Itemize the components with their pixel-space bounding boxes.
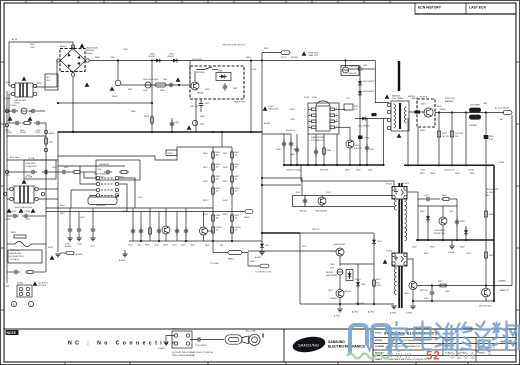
- svg-text:R642: R642: [290, 109, 295, 111]
- warning triangle transformer: [385, 94, 390, 98]
- svg-text:R618: R618: [250, 261, 255, 263]
- svg-text:90-264V: 90-264V: [39, 285, 47, 287]
- capacitor C630: [283, 134, 285, 165]
- junction y240: [417, 239, 419, 241]
- svg-text:IC601: IC601: [269, 106, 275, 108]
- svg-text:CN601: CN601: [172, 329, 180, 331]
- capacitor row y264: [12, 270, 20, 274]
- svg-text:B+ 125V 300mA: B+ 125V 300mA: [495, 107, 510, 110]
- snubber dashed box: [417, 99, 435, 127]
- relay transistor Q601: [191, 82, 199, 90]
- junction dots gbus: [283, 164, 285, 166]
- svg-text:CX601: CX601: [10, 105, 17, 107]
- thick wire x496 down: [493, 165, 495, 301]
- resistor R640: [323, 134, 325, 165]
- warning triangle row2: [8, 116, 13, 120]
- svg-text:D607 1N4937: D607 1N4937: [363, 81, 375, 83]
- svg-text:1M: 1M: [216, 230, 219, 232]
- capacitor C622: [158, 226, 160, 241]
- svg-text:5VDC: 5VDC: [205, 89, 211, 91]
- capacitor CX601 row: [10, 109, 18, 113]
- wire row y136: [7, 135, 46, 137]
- resistor in relay box: [119, 171, 129, 174]
- capacitor C603 column x172: [171, 118, 173, 132]
- svg-text:6: 6: [336, 120, 337, 122]
- box NTC: [45, 74, 58, 90]
- svg-text:220uF: 220uF: [430, 173, 436, 175]
- svg-text:R672 1K: R672 1K: [312, 229, 320, 231]
- capacitor C633: [366, 119, 368, 166]
- svg-text:KA5Q1265: KA5Q1265: [269, 108, 280, 111]
- svg-text:C613: C613: [80, 217, 85, 219]
- svg-text:P602 DEGAUSS: P602 DEGAUSS: [94, 173, 110, 176]
- svg-text:UF4007: UF4007: [167, 56, 175, 58]
- junction y285.5: [431, 284, 433, 286]
- diode D620 block: [409, 111, 425, 113]
- wire left rail down: [8, 94, 10, 123]
- svg-text:2: 2: [309, 114, 310, 116]
- svg-text:ERROR AMP: ERROR AMP: [326, 274, 338, 277]
- warning triangle under transformer: [397, 133, 402, 137]
- wire winding rail y195.5: [293, 195, 393, 197]
- svg-text:C622: C622: [154, 245, 159, 247]
- svg-text:1M: 1M: [216, 179, 219, 181]
- svg-text:R606: R606: [131, 111, 136, 113]
- wire x383.5: [383, 119, 385, 166]
- resistor R626: [231, 162, 234, 172]
- svg-text:R641: R641: [354, 106, 359, 108]
- wire x408 winding return: [407, 118, 409, 165]
- junction y304: [339, 303, 341, 305]
- svg-text:C611: C611: [205, 103, 209, 105]
- char jia: [387, 322, 407, 351]
- svg-text:R630: R630: [145, 245, 150, 247]
- svg-text:A-GND: A-GND: [368, 311, 375, 314]
- svg-text:LED601: LED601: [344, 291, 351, 293]
- ground degauss 2: [78, 234, 80, 238]
- svg-text:SAMSUNG: SAMSUNG: [298, 342, 319, 347]
- char wei: [436, 324, 454, 350]
- junction secondary rail: [438, 111, 440, 113]
- AC cord plug: [225, 330, 263, 346]
- svg-text:C654: C654: [326, 192, 331, 194]
- svg-text:R603: R603: [30, 44, 35, 46]
- capacitor C620: [132, 226, 134, 241]
- svg-text:CY602: CY602: [34, 132, 41, 134]
- capacitor C616: [78, 212, 80, 228]
- svg-text:A-GND: A-GND: [334, 315, 341, 318]
- resistor R657: [485, 252, 488, 258]
- svg-text:0.22: 0.22: [354, 109, 358, 111]
- svg-text:0.9mH: 0.9mH: [5, 98, 11, 100]
- svg-text:A-GND: A-GND: [76, 253, 83, 256]
- wire y251 row: [248, 250, 336, 252]
- wire x262 y233 thick: [262, 232, 300, 234]
- svg-text:LF601: LF601: [5, 82, 10, 84]
- svg-text:1M: 1M: [235, 191, 238, 193]
- ground x125: [122, 254, 127, 257]
- wire varistor branch: [45, 123, 47, 160]
- capacitor C631: [290, 134, 292, 165]
- svg-text:KA5Q1265RF: KA5Q1265RF: [311, 136, 325, 139]
- junction dots bus: [72, 131, 74, 133]
- node snubber tap: [117, 59, 119, 61]
- thick bus y240: [416, 239, 494, 241]
- diode D610 line y118.5: [355, 118, 388, 120]
- box right relay drive: [96, 160, 140, 180]
- wire left col to bottom: [6, 216, 8, 283]
- svg-text:R621: R621: [203, 167, 208, 169]
- char liao: [493, 322, 510, 350]
- extra reference labels: [5, 48, 503, 305]
- svg-text:0101: 0101: [450, 351, 477, 361]
- wire harness step: [155, 147, 213, 160]
- wire degauss pin4 loop: [90, 195, 96, 197]
- char zi: [476, 322, 490, 352]
- char dian: [415, 322, 432, 350]
- svg-text:S-GND: S-GND: [406, 313, 413, 315]
- T602 left winding lower: [394, 255, 396, 295]
- svg-text:SRUDH-S: SRUDH-S: [196, 72, 205, 74]
- svg-text:D634: D634: [377, 241, 382, 243]
- svg-text:C633: C633: [368, 170, 373, 172]
- svg-text:Q609 KSC945: Q609 KSC945: [479, 306, 491, 308]
- diode D608: [358, 89, 362, 97]
- transformer T601: [387, 96, 409, 132]
- wire degauss pin2 left: [80, 166, 96, 184]
- svg-text:682: 682: [220, 245, 223, 247]
- svg-text:JP601: JP601: [167, 153, 174, 155]
- zone tick marks left edge: [1, 62, 5, 310]
- wire LF602 left: [7, 188, 10, 190]
- svg-text:Q605: Q605: [421, 104, 426, 106]
- svg-text:C605 100uF 400V: C605 100uF 400V: [143, 79, 159, 81]
- svg-text:1M: 1M: [235, 167, 238, 169]
- resistor R624: [212, 213, 215, 223]
- capacitor C623: [176, 226, 178, 241]
- wire filter left to AC rail: [9, 85, 11, 87]
- resistor R629: [231, 213, 234, 223]
- svg-text:D633 4148: D633 4148: [355, 303, 364, 305]
- bridge terminal top: [71, 45, 74, 48]
- wire verticals to harness: [132, 208, 134, 226]
- svg-text:8: 8: [336, 108, 337, 110]
- BOTTOM BAND: [4, 329, 516, 363]
- wire x418: [417, 192, 419, 240]
- wire rail y134: [262, 133, 291, 135]
- svg-text:1/2W: 1/2W: [252, 69, 257, 71]
- svg-text:R663: R663: [460, 221, 465, 223]
- WATERMARK: [347, 322, 519, 363]
- fuse FB601: [228, 251, 242, 255]
- svg-text:C614: C614: [122, 211, 127, 213]
- svg-text:L602 BEAD: L602 BEAD: [470, 104, 481, 107]
- ground heater: [163, 342, 168, 345]
- AC inlet connector J601: [11, 282, 33, 307]
- zone tick marks top edge: [26, 1, 390, 4]
- KA431 IC602: [439, 217, 447, 225]
- feedback divider x486: [485, 113, 487, 289]
- svg-text:A-GND: A-GND: [119, 259, 126, 262]
- svg-text:R670: R670: [376, 279, 381, 281]
- svg-text:NOTE: AC INPUT RANGE IS 90V TO: NOTE: AC INPUT RANGE IS 90V TO 264V A: [172, 351, 213, 354]
- samsung logo ellipse: [292, 335, 327, 355]
- svg-text:D606: D606: [218, 71, 223, 73]
- wire cap link y69: [362, 68, 375, 70]
- ground S-GND core bottom: [391, 306, 396, 309]
- svg-text:1/2W: 1/2W: [110, 57, 115, 59]
- wire degauss pin1 left: [84, 172, 96, 178]
- svg-text:ADJ: ADJ: [486, 194, 490, 197]
- ground A-GND left: [55, 254, 60, 257]
- wire bridge left down: [35, 61, 57, 88]
- svg-text:R652: R652: [470, 173, 475, 175]
- zone tick marks right edge: [516, 62, 520, 310]
- fuse box labels: [24, 160, 56, 179]
- svg-text:R656: R656: [489, 214, 494, 216]
- resistor R627: [231, 174, 234, 184]
- svg-text:C633: C633: [369, 149, 374, 151]
- wire winding rail y206.5: [293, 206, 395, 208]
- svg-text:R644 0.22: R644 0.22: [286, 130, 295, 132]
- svg-text:GBU4J 600V: GBU4J 600V: [86, 48, 98, 50]
- resistor R671: [438, 284, 448, 287]
- svg-text:52: 52: [426, 351, 441, 363]
- wire x262 main vertical: [261, 53, 263, 233]
- svg-text:C656: C656: [466, 253, 471, 255]
- svg-text:D612: D612: [265, 245, 270, 247]
- warning triangle relay: [176, 77, 181, 81]
- svg-text:SAMSUNG: SAMSUNG: [328, 340, 345, 344]
- svg-text:R614: R614: [60, 205, 65, 207]
- ground degauss 3: [92, 234, 94, 238]
- junction dots y165.3: [438, 164, 440, 166]
- line filter LF601: [11, 83, 36, 105]
- svg-text:D633: D633: [361, 284, 366, 286]
- capacitor C634: [296, 134, 298, 165]
- zone tick marks bottom edge: [65, 362, 468, 365]
- wire x152 column: [151, 61, 153, 133]
- svg-text:R655: R655: [489, 136, 494, 138]
- wire pin stubs left: [308, 108, 312, 110]
- capacitor C608 x360: [358, 65, 362, 73]
- svg-text:R625: R625: [223, 153, 228, 155]
- svg-text:SHEET: SHEET: [375, 359, 383, 361]
- svg-text:PC601: PC601: [386, 184, 393, 186]
- svg-text:R609: R609: [128, 89, 133, 91]
- svg-text:R601: R601: [5, 130, 10, 132]
- box left edge x300: [299, 233, 301, 304]
- warning triangle x52: [50, 255, 55, 259]
- watermark book logo: [350, 325, 390, 353]
- svg-text:2200P: 2200P: [36, 83, 42, 85]
- svg-text:C613: C613: [138, 197, 143, 199]
- wire harness y208: [46, 207, 213, 209]
- svg-text:C660: C660: [330, 264, 335, 266]
- wire drain drop x375.3: [375, 61, 389, 103]
- svg-text:D640: D640: [437, 106, 442, 108]
- svg-text:R602: R602: [20, 130, 25, 132]
- svg-text:SCHEME: SCHEME: [375, 346, 385, 348]
- svg-text:R616: R616: [60, 213, 65, 215]
- arrow terminal: [260, 264, 269, 268]
- svg-text:R622: R622: [203, 181, 208, 183]
- transistor Q610: [318, 197, 326, 205]
- svg-text:C618: C618: [52, 167, 57, 169]
- wire ladder rail left: [212, 147, 214, 241]
- svg-text:L603: L603: [163, 79, 167, 81]
- svg-text:R640: R640: [327, 150, 332, 152]
- svg-text:Q602: Q602: [190, 245, 195, 247]
- warning triangle bridge: [80, 43, 85, 47]
- svg-text:MODEL: MODEL: [375, 340, 383, 342]
- svg-text:RELAY: RELAY: [197, 92, 204, 95]
- svg-text:Q608: Q608: [404, 293, 409, 295]
- svg-text:7: 7: [336, 114, 337, 116]
- label cluster additions: [52, 57, 509, 300]
- svg-text:1M: 1M: [216, 155, 219, 157]
- svg-text:EER3543: EER3543: [392, 96, 400, 98]
- svg-text:T3.15A UL: T3.15A UL: [10, 258, 20, 261]
- svg-text:Q607: Q607: [328, 290, 333, 292]
- svg-text:T3.15A: T3.15A: [28, 157, 35, 160]
- diode D631: [427, 206, 429, 240]
- capacitor C653: [456, 199, 458, 240]
- svg-text:1M: 1M: [235, 179, 238, 181]
- junction bus 237: [140, 240, 142, 242]
- wire x292.5: [292, 196, 294, 207]
- resistor R620: [212, 150, 215, 160]
- varistor VA601: [44, 130, 47, 133]
- warning triangle fuse: [302, 51, 307, 55]
- wire y272: [7, 271, 12, 273]
- wire y181 aux: [301, 165, 394, 186]
- wire x308: [307, 134, 309, 165]
- relay coil diode D606 box: [216, 73, 231, 81]
- svg-text:SHUNT REG: SHUNT REG: [434, 233, 446, 235]
- resistor R628: [231, 186, 234, 196]
- wire pc601 right: [407, 191, 418, 193]
- wire bottom bus y237: [129, 240, 262, 242]
- svg-text:C620: C620: [128, 245, 133, 247]
- ground S-GND bottom: [412, 301, 414, 305]
- wire degauss pin2 right: [119, 184, 127, 212]
- svg-text:R671 1K: R671 1K: [420, 290, 428, 292]
- diode D607: [358, 79, 362, 87]
- svg-text:R671: R671: [438, 281, 443, 283]
- ground A-GND y308: [339, 304, 341, 308]
- capacitor row y172: [29, 170, 37, 174]
- svg-text:DIODE: DIODE: [86, 53, 93, 55]
- svg-text:5: 5: [336, 126, 337, 128]
- wire secondary rail y112.5: [435, 112, 504, 114]
- wire y178: [262, 178, 302, 196]
- op-amp IC601 body: [311, 101, 335, 142]
- char xiu: [456, 323, 472, 350]
- capacitor in relay box: [104, 170, 112, 174]
- svg-text:C652: C652: [449, 211, 454, 213]
- svg-text:1/2W: 1/2W: [36, 130, 41, 132]
- photo coupler PC602: [386, 251, 407, 267]
- svg-text:1M: 1M: [235, 230, 238, 232]
- svg-text:R657: R657: [489, 255, 494, 257]
- wire degauss pin1 right: [119, 178, 135, 208]
- svg-text:AC CORD: AC CORD: [246, 330, 257, 333]
- svg-text:Q604: Q604: [354, 145, 359, 147]
- svg-text:JP602: JP602: [364, 138, 369, 140]
- svg-text:DEGAUSS: DEGAUSS: [96, 204, 106, 207]
- svg-text:R651: R651: [420, 173, 425, 175]
- wire left col down: [6, 91, 8, 172]
- capacitor heater: [190, 339, 196, 341]
- wire degauss pin4 right loop: [117, 195, 119, 197]
- column x374: [373, 233, 375, 304]
- wire to ac cord: [203, 339, 224, 341]
- wire thermistor row: [7, 243, 15, 245]
- svg-text:ZD601: ZD601: [355, 279, 361, 281]
- svg-text:R628: R628: [223, 200, 228, 202]
- transformer T602 core: [398, 183, 400, 308]
- transistor Q609: [482, 288, 491, 297]
- warning triangles y212: [7, 208, 12, 212]
- svg-text:C630: C630: [276, 149, 281, 151]
- svg-text:D630 1N4148: D630 1N4148: [315, 211, 327, 213]
- capacitor row y216: [11, 214, 19, 218]
- svg-text:1/2W: 1/2W: [30, 47, 35, 49]
- wire ladder rail right: [231, 147, 233, 241]
- T602 right winding: [405, 188, 407, 241]
- svg-text:EE2828: EE2828: [408, 96, 415, 98]
- svg-text:CX602: CX602: [5, 219, 11, 221]
- svg-text:A-GND: A-GND: [255, 256, 262, 259]
- svg-text:1M: 1M: [216, 167, 219, 169]
- svg-text:C644: C644: [420, 170, 425, 172]
- wire bridge bottom down: [72, 76, 74, 132]
- svg-text:FB601: FB601: [228, 259, 235, 261]
- svg-text:C636: C636: [290, 119, 295, 121]
- resistor R625: [231, 150, 234, 160]
- wire LF602 right: [38, 188, 58, 190]
- svg-text:D609: D609: [356, 170, 361, 172]
- svg-text:WAKE UP: WAKE UP: [500, 289, 509, 292]
- svg-text:TH601: TH601: [10, 232, 17, 234]
- wire snubber tap down: [117, 61, 119, 81]
- diode D612: [261, 233, 263, 242]
- wire left col lower: [6, 172, 8, 216]
- svg-text:D608 1N4937: D608 1N4937: [363, 91, 375, 93]
- secondary ground bus y165.3: [404, 164, 494, 166]
- svg-text:FREQ 50/60Hz NOMINAL: FREQ 50/60Hz NOMINAL: [172, 354, 196, 357]
- svg-text:A-GND: A-GND: [352, 311, 359, 314]
- resistor R649: [438, 113, 440, 166]
- resistor R660: [441, 198, 451, 201]
- svg-text:TITLE: TITLE: [375, 333, 382, 335]
- svg-text:COIL: COIL: [97, 169, 101, 171]
- svg-text:T3.15A 250V: T3.15A 250V: [25, 165, 37, 168]
- svg-text:NTC: NTC: [46, 77, 51, 79]
- svg-text:SHEET: SHEET: [478, 353, 486, 355]
- svg-text:C650 472: C650 472: [299, 211, 307, 213]
- thermistor TH601: [10, 232, 31, 247]
- resistor R630: [149, 224, 151, 241]
- wire y103 cross: [58, 102, 152, 104]
- note area top line: [4, 328, 516, 330]
- svg-text:TO DEFLECTION: TO DEFLECTION: [255, 272, 272, 274]
- FET Q605: [424, 108, 433, 117]
- svg-text:Q606 KSC945: Q606 KSC945: [333, 244, 345, 246]
- svg-text:VSTR: VSTR: [304, 97, 310, 99]
- NOTE label box: [6, 330, 19, 335]
